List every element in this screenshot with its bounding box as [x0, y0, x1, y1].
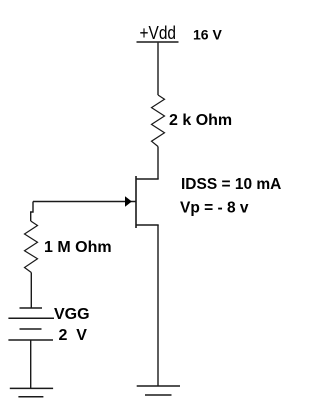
wire Vdd to R1: [157, 43, 159, 95]
svg-text:IDSS = 10 mA: IDSS = 10 mA: [181, 176, 281, 193]
svg-text:2 V: 2 V: [59, 327, 88, 344]
wire R1 to drain: [157, 147, 159, 180]
svg-text:VGG: VGG: [54, 306, 90, 323]
wire R2 to battery: [30, 273, 32, 309]
svg-text:16 V: 16 V: [193, 27, 222, 43]
resistor R1 2 k Ohm: [152, 95, 165, 147]
resistor R2 1 M Ohm: [25, 221, 38, 273]
wire battery to ground: [30, 340, 32, 388]
svg-text:Vp = - 8 v: Vp = - 8 v: [180, 200, 249, 217]
svg-text:2 k Ohm: 2 k Ohm: [169, 112, 232, 129]
svg-text:1 M Ohm: 1 M Ohm: [44, 239, 112, 256]
ground (source): [137, 386, 180, 395]
svg-text:+Vdd: +Vdd: [140, 22, 177, 43]
node +Vdd: [137, 22, 179, 43]
transistor Q1 JFET: [33, 176, 159, 228]
ground (battery): [10, 388, 53, 396]
wire gate to R2: [31, 202, 33, 222]
wire source to ground: [157, 225, 159, 386]
battery VGG: [8, 308, 54, 340]
